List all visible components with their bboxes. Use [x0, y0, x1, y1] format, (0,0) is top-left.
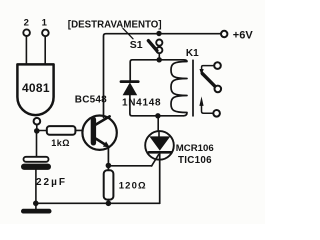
- ground bar: [21, 209, 52, 214]
- junction node S1 top on rail: [156, 31, 161, 36]
- relay movable blade: [202, 74, 214, 86]
- wire relay box top: [130, 60, 183, 81]
- svg-text:2: 2: [24, 18, 29, 29]
- transistor Q1 collector stroke: [96, 116, 110, 124]
- terminal pin 1: [42, 30, 49, 37]
- svg-text:22µF: 22µF: [36, 177, 67, 188]
- wire emitter down: [107, 147, 109, 170]
- junction node emitter gate: [106, 163, 112, 169]
- relay contact terminal B: [215, 86, 222, 93]
- wire bottom rail: [36, 202, 160, 204]
- wire S1 to coil node: [158, 53, 160, 60]
- svg-text:K1: K1: [186, 48, 199, 59]
- SCR Q2 circle: [145, 131, 174, 160]
- wire collector to +6V rail: [104, 34, 222, 118]
- diode D1 triangle: [123, 82, 138, 95]
- svg-text:120Ω: 120Ω: [119, 181, 147, 192]
- junction node ground rail left: [33, 201, 39, 207]
- wire node to capacitor: [36, 131, 38, 157]
- relay contact arrow down: [200, 69, 204, 76]
- svg-text:+6V: +6V: [233, 30, 254, 42]
- svg-text:MCR106: MCR106: [176, 143, 214, 154]
- terminal pin 2: [23, 29, 30, 36]
- junction node gate output: [34, 128, 40, 134]
- SCR Q2 cathode bar: [149, 151, 171, 154]
- switch S1 contact top: [156, 40, 162, 46]
- relay K1 core line: [192, 60, 194, 116]
- junction node R2 bottom: [106, 201, 112, 207]
- svg-text:BC548: BC548: [75, 95, 107, 106]
- svg-text:S1: S1: [130, 39, 143, 51]
- svg-text:1: 1: [42, 18, 48, 29]
- diode D1 cathode bar: [121, 80, 138, 83]
- wire emitter node to SCR gate: [108, 165, 151, 167]
- switch S1 lever: [148, 41, 157, 51]
- SCR Q2 triangle: [149, 136, 170, 150]
- junction node relay box top: [157, 57, 162, 62]
- svg-text:TIC106: TIC106: [178, 155, 212, 166]
- resistor R2 120 ohm body: [104, 170, 114, 199]
- junction node relay box bottom: [155, 113, 160, 118]
- wire C1 to ground rail: [35, 170, 37, 209]
- resistor R1 1k body: [47, 126, 76, 135]
- svg-text:4081: 4081: [22, 81, 50, 95]
- gate output bubble: [34, 118, 41, 125]
- svg-text:[DESTRAVAMENTO]: [DESTRAVAMENTO]: [68, 19, 162, 30]
- terminal +6V: [221, 31, 227, 37]
- relay armature arrow up: [199, 96, 203, 106]
- wire R2 to rail: [107, 200, 109, 204]
- SCR Q2 cathode wire: [159, 152, 161, 203]
- AND gate U1 4081 body: [17, 64, 53, 115]
- wire pin2 to gate: [25, 36, 27, 64]
- switch S1 contact bottom: [156, 47, 162, 53]
- relay armature wire: [202, 104, 214, 113]
- capacitor C1 bottom plate: [21, 164, 51, 170]
- wire R1 to base: [75, 129, 91, 131]
- capacitor C1 top plate: [24, 157, 49, 162]
- wire pin1 to gate: [44, 36, 46, 64]
- transistor Q1 emitter stroke: [96, 139, 107, 146]
- transistor Q1 BC548 circle: [82, 116, 116, 150]
- SCR Q2 anode lead inside: [158, 131, 160, 137]
- transistor Q1 base bar: [91, 120, 96, 143]
- relay K1 coil: [171, 60, 187, 116]
- wire relay box bottom: [130, 95, 184, 116]
- transistor Q1 emitter arrow: [103, 141, 110, 147]
- wire box bottom to SCR anode: [157, 116, 159, 132]
- svg-text:1kΩ: 1kΩ: [51, 138, 70, 148]
- relay contact terminal A: [214, 62, 221, 69]
- leader line from label to S1: [123, 28, 133, 38]
- SCR Q2 gate lead: [152, 155, 159, 166]
- relay contact terminal C: [213, 110, 220, 117]
- svg-text:1N4148: 1N4148: [122, 97, 161, 108]
- wire bubble to node: [36, 125, 38, 131]
- wire node to resistor R1: [37, 130, 47, 132]
- relay contact wire A: [202, 66, 215, 70]
